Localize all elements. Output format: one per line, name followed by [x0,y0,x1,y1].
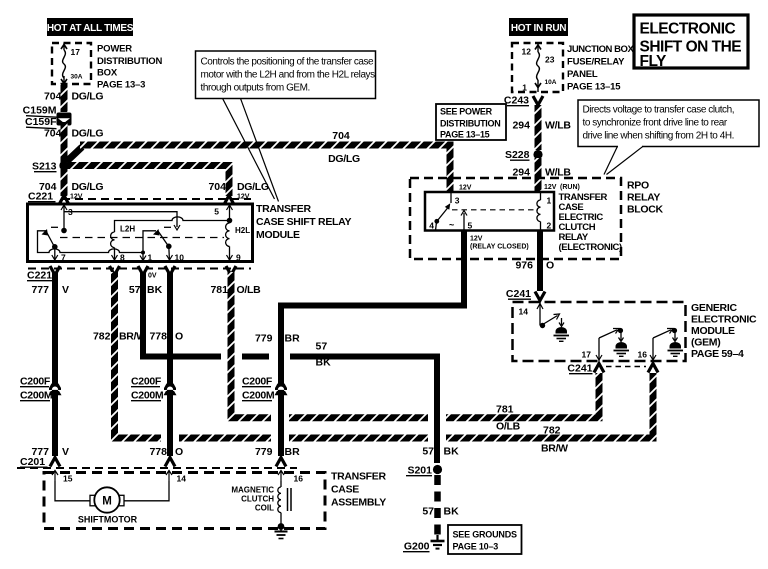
svg-text:30A: 30A [71,74,83,81]
svg-text:PAGE 13–3: PAGE 13–3 [97,80,145,91]
label TRANSFER CASE ASSEMBLY [331,471,386,509]
switch SW2 (shift motor O side) [143,227,173,261]
svg-text:15: 15 [63,474,73,484]
relay coil L2H [111,225,136,262]
GEM pin 17 switch to ground [582,328,624,361]
connector C221 (top) [28,191,251,205]
svg-text:BK: BK [316,357,332,369]
svg-text:FLY: FLY [640,53,668,70]
svg-text:PANEL: PANEL [567,69,598,80]
svg-text:10A: 10A [545,79,557,86]
relay K1 dashed actuation link [452,209,538,211]
svg-text:HOT AT ALL TIMES: HOT AT ALL TIMES [47,23,134,34]
svg-text:8: 8 [120,253,125,263]
ground G200 [403,535,445,553]
wire 704 DG/LG from power box to C159 [61,84,68,112]
svg-text:704: 704 [44,128,62,140]
svg-text:RPO: RPO [627,180,649,192]
svg-text:C243: C243 [504,95,529,107]
svg-text:(GEM): (GEM) [691,337,720,349]
svg-text:S213: S213 [32,161,57,173]
svg-text:C200F: C200F [131,376,162,388]
clutch relay K1 box [425,192,554,231]
node S213 dot [59,161,68,170]
svg-text:C221: C221 [28,191,53,203]
pin 14 [166,471,186,484]
svg-text:C200F: C200F [20,376,51,388]
svg-text:V: V [62,446,69,458]
svg-text:W/LB: W/LB [545,120,571,132]
svg-text:ELECTRONIC: ELECTRONIC [640,21,736,38]
svg-text:294: 294 [512,120,530,132]
svg-text:O: O [175,446,183,458]
ground (GEM pin 16) [668,333,684,356]
svg-text:POWER: POWER [97,44,132,55]
leader lines callout 1 [223,99,275,199]
svg-text:S201: S201 [407,465,432,477]
relay K1 internals: pin 3 switch [429,192,472,231]
module U1 box [28,204,253,262]
svg-text:BR: BR [285,446,301,458]
svg-text:PAGE 59–4: PAGE 59–4 [691,348,744,360]
svg-text:1: 1 [547,196,552,206]
svg-text:W/LB: W/LB [545,167,571,179]
label POWER DISTRIBUTION BOX PAGE 13-3 [97,44,162,91]
svg-text:9: 9 [236,253,241,263]
svg-text:BLOCK: BLOCK [627,204,664,216]
wire 782 BR/W (pin 8 down, right, up to GEM pin 16) [115,272,654,438]
title box ELECTRONIC SHIFT ON THE FLY [634,15,748,70]
svg-text:704: 704 [208,181,226,193]
banner HOT IN RUN [509,18,568,36]
svg-text:CLUTCH: CLUTCH [241,495,274,504]
label TRANSFER CASE ELECTRIC CLUTCH RELAY (ELECTRONIC) [559,192,623,253]
svg-text:O/LB: O/LB [496,421,521,433]
svg-text:SHIFTMOTOR: SHIFTMOTOR [78,515,138,525]
svg-text:Controls the positioning of th: Controls the positioning of the transfer… [201,57,375,68]
ground (GEM pin 17) [614,333,630,356]
svg-text:779: 779 [255,333,273,345]
svg-text:294: 294 [512,167,530,179]
svg-text:C241: C241 [506,288,531,300]
splice S201 [406,465,442,477]
wire 777 V (pin 7 to C201 pin 15) [52,272,58,456]
label TRANSFER CASE SHIFT RELAY MODULE [256,203,351,241]
svg-text:O/LB: O/LB [237,284,262,296]
pin 15 [52,471,73,484]
svg-text:BR/W: BR/W [541,443,568,455]
svg-text:Directs voltage to transfer ca: Directs voltage to transfer case clutch, [583,105,735,116]
svg-text:C159M: C159M [23,105,57,117]
svg-text:drive line when shifting from: drive line when shifting from 2H to 4H. [583,131,734,142]
svg-text:L2H: L2H [120,225,135,234]
junction box fuse/relay panel (dashed) [512,43,563,92]
svg-text:57: 57 [422,446,434,458]
wire 704 S213 down to C221 pin 3 [61,166,68,197]
fuse F17 30A [61,43,83,84]
label JUNCTION BOX FUSE/RELAY PANEL PAGE 13-15 [567,44,634,93]
GEM dashed box [513,302,686,361]
svg-text:DG/LG: DG/LG [72,181,104,193]
svg-text:704: 704 [332,130,350,142]
svg-text:781: 781 [496,404,514,416]
svg-text:C200F: C200F [242,376,273,388]
magnetic clutch coil [231,481,291,524]
svg-text:S228: S228 [505,149,530,161]
wire pin14 to motor [124,481,169,501]
wire 779 BR (clutch relay pin 5 down, left, down to C201 pin 16) [281,230,464,456]
wire pin15 to motor [55,481,90,501]
svg-text:H2L: H2L [235,226,250,235]
fuse F23 10A [522,43,557,93]
wire 57 BK dashed (S201 to G200) [434,475,441,538]
svg-text:C159F: C159F [25,116,57,128]
RPO relay block dashed box [410,178,621,259]
wire 294 W/LB (C243 to S228) [535,105,542,150]
svg-text:777: 777 [31,284,49,296]
svg-text:17: 17 [71,47,81,57]
svg-text:M: M [102,496,112,508]
pin 5 [214,204,232,223]
splice S228 [505,149,543,161]
svg-text:CASE SHIFT RELAY: CASE SHIFT RELAY [256,216,351,228]
svg-text:SEE POWER: SEE POWER [440,107,493,117]
svg-text:12V: 12V [459,185,472,192]
svg-text:C241: C241 [567,363,592,375]
splice S213 [32,161,69,173]
label GENERIC ELECTRONIC MODULE (GEM) PAGE 59-4 [691,302,757,360]
svg-text:57: 57 [422,506,434,518]
svg-text:C200M: C200M [131,390,164,402]
label RPO RELAY BLOCK [627,180,664,216]
svg-text:14: 14 [519,307,529,317]
svg-text:12V: 12V [470,236,483,243]
svg-text:~: ~ [449,220,454,230]
svg-text:16: 16 [638,350,648,360]
wire 704 DG/LG long run S213 to clutch relay pin 3 [64,147,82,164]
svg-text:0V: 0V [148,273,157,280]
wire 781 O/LB (pin 9 down, right, up to GEM pin 17) [231,272,599,418]
svg-text:RELAY: RELAY [627,192,660,204]
svg-text:DG/LG: DG/LG [72,91,104,103]
svg-text:976: 976 [515,260,533,272]
svg-text:TRANSFER: TRANSFER [331,471,386,483]
svg-text:778: 778 [149,446,167,458]
banner HOT AT ALL TIMES [47,18,134,36]
svg-text:17: 17 [582,350,592,360]
svg-text:16: 16 [294,474,304,484]
svg-text:MODULE: MODULE [691,325,735,337]
switch SW1 common path to pin 1 (hops over x55 and x114.5) [38,231,144,253]
svg-text:1: 1 [522,83,527,93]
switch SW1 (shift motor V side) [42,227,59,261]
svg-text:3: 3 [455,196,460,206]
svg-text:motor with the L2H and from th: motor with the L2H and from the H2L rela… [201,70,376,81]
svg-text:5: 5 [214,207,219,217]
svg-text:778: 778 [149,331,167,343]
svg-text:57: 57 [316,341,328,353]
svg-text:10: 10 [175,253,185,263]
wire 57 BK (pin 1 down, right, down to S201) [143,272,437,463]
bottom pin numbers [61,253,241,263]
wire 704 DG/LG run S213 to module pin 5 [64,166,229,197]
svg-text:DISTRIBUTION: DISTRIBUTION [440,119,500,129]
svg-text:TRANSFER: TRANSFER [256,203,311,215]
svg-text:782: 782 [93,331,111,343]
svg-text:FUSE/RELAY: FUSE/RELAY [567,57,625,68]
svg-text:V: V [62,284,69,296]
callout note 1 (Controls the positioning...) [196,51,376,99]
wire 294 W/LB (S228 to clutch relay pin 1) [535,158,542,192]
connector C159M/C159F [23,105,72,129]
svg-text:(ELECTRONIC): (ELECTRONIC) [559,242,623,253]
svg-text:PAGE 10–3: PAGE 10–3 [453,542,499,552]
GEM pin 14 switch to ground [519,302,560,328]
connector C241 (bottom) [567,363,658,375]
connector C200F/C200M on 778 [131,376,177,402]
svg-text:14: 14 [177,474,187,484]
box SEE GROUNDS PAGE 10-3 [448,525,522,554]
svg-text:BOX: BOX [97,68,118,79]
svg-text:779: 779 [255,446,273,458]
svg-text:782: 782 [543,425,561,437]
svg-text:HOT IN RUN: HOT IN RUN [511,23,566,34]
svg-text:CASE: CASE [331,484,359,496]
svg-text:(RUN): (RUN) [560,184,580,191]
svg-text:4: 4 [429,221,434,231]
svg-text:BR: BR [285,333,301,345]
svg-text:BK: BK [444,446,460,458]
svg-text:12: 12 [522,47,532,57]
svg-text:7: 7 [61,253,66,263]
svg-text:PAGE 13–15: PAGE 13–15 [440,130,490,140]
svg-text:C221: C221 [27,270,52,282]
svg-text:5: 5 [468,221,473,231]
svg-text:23: 23 [545,55,555,65]
svg-text:704: 704 [44,91,62,103]
connector C241 (top) [506,288,545,301]
svg-text:MODULE: MODULE [256,229,300,241]
box SEE POWER DISTRIBUTION PAGE 13-15 [436,104,506,140]
callout note 2 (Directs voltage...) [578,100,759,175]
ground (GEM pin 14) [554,318,570,341]
svg-text:DISTRIBUTION: DISTRIBUTION [97,56,162,67]
dashed actuation link [60,237,224,239]
connector C200F/C200M on 777 [20,376,62,402]
svg-text:through outputs from GEM.: through outputs from GEM. [201,83,310,94]
svg-text:BK: BK [147,284,163,296]
svg-text:GENERIC: GENERIC [691,302,737,314]
svg-text:2: 2 [547,221,552,231]
svg-text:BK: BK [444,506,460,518]
svg-text:57: 57 [129,284,141,296]
wire 778 O (pin 10 to C201 pin 14) [167,272,173,456]
svg-text:C200M: C200M [20,390,53,402]
svg-text:DG/LG: DG/LG [72,128,104,140]
svg-text:DG/LG: DG/LG [237,181,269,193]
relay K1 coil (pins 1-2) [537,192,552,231]
svg-text:12V: 12V [544,184,557,191]
wire pin3 to H2L switch pivot riser [64,212,177,227]
svg-text:DG/LG: DG/LG [328,153,360,165]
svg-text:PAGE 13–15: PAGE 13–15 [567,82,621,93]
svg-text:COIL: COIL [255,504,274,513]
wire pin5 across to L2H coil (hop over x177) [115,217,230,232]
svg-text:781: 781 [210,284,228,296]
svg-text:G200: G200 [404,541,430,553]
connector C201 [17,456,297,468]
svg-text:MAGNETIC: MAGNETIC [231,486,274,495]
connector C243 [504,95,543,107]
connector C221 (bottom) [27,266,251,282]
wire 976 O (relay pin 2 to GEM pin 14) [537,231,543,292]
svg-text:O: O [175,331,183,343]
svg-text:C201: C201 [20,456,45,468]
pin 3 [61,204,73,233]
svg-text:JUNCTION BOX: JUNCTION BOX [567,44,634,55]
svg-text:SEE GROUNDS: SEE GROUNDS [453,530,518,540]
svg-text:C200M: C200M [242,390,275,402]
connector C200F/C200M on 779 [242,376,288,402]
ground (clutch coil) [275,523,288,538]
node pin1 junction [140,251,146,262]
svg-text:O: O [546,260,554,272]
relay coil H2L [226,223,251,262]
svg-text:ASSEMBLY: ASSEMBLY [331,497,386,509]
svg-text:1: 1 [148,253,153,263]
svg-text:ELECTRONIC: ELECTRONIC [691,314,757,326]
wire 704 from C159 to S213 [61,122,68,163]
svg-text:(RELAY CLOSED): (RELAY CLOSED) [470,244,529,251]
motor M1 SHIFTMOTOR [78,487,138,524]
power distribution box (dashed) [52,43,91,84]
assembly dashed box [44,473,325,529]
svg-text:to synchronize front drive lin: to synchronize front drive line to rear [583,118,728,129]
GEM pin 16 switch to ground [638,328,678,361]
pin 16 [278,471,303,484]
